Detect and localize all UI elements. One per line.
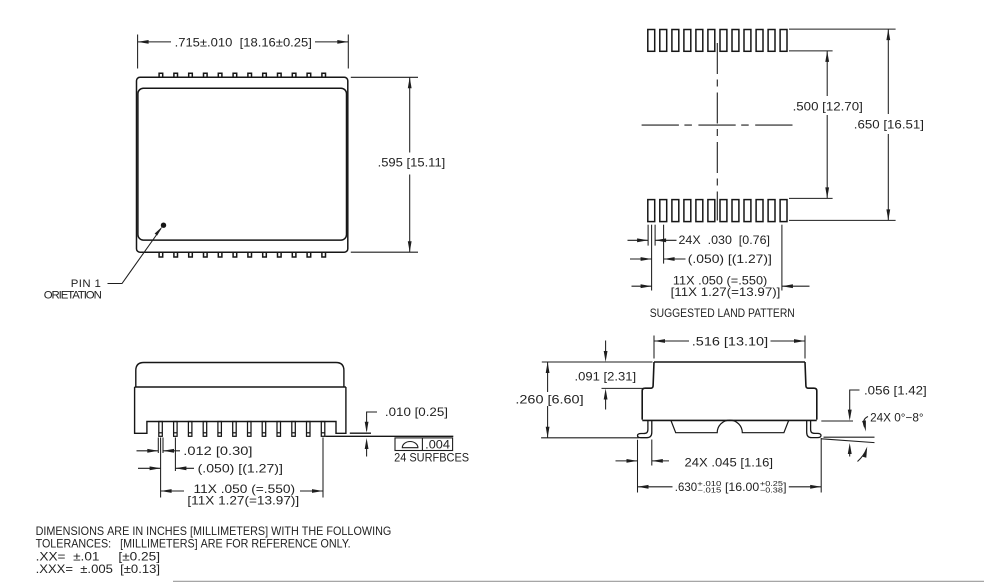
svg-text:SUGGESTED LAND PATTERN: SUGGESTED LAND PATTERN [650,307,795,320]
seating plane line [326,435,454,437]
svg-text:−0.38: −0.38 [760,485,783,494]
extension line pad1 left edge [647,225,649,246]
dimension .260 extension lines [542,361,653,363]
end view: right gull-wing lead [807,421,821,438]
svg-text:24X 0°−8°: 24X 0°−8° [870,411,924,424]
svg-text:TOLERANCES: [MILLIMETERS] AR: TOLERANCES: [MILLIMETERS] ARE FOR REFERE… [36,538,351,551]
land pattern: top row pads (12) [648,30,787,52]
lead angle line 0-8 deg [822,439,875,443]
.056 up arrow [849,450,851,457]
dimension (.050) arrows [630,258,652,260]
dimension .516 line with outward arrowheads [654,340,689,342]
dimension .091 arrows [605,341,607,354]
svg-text:.XX= ±.01 [±0.25]: .XX= ±.01 [±0.25] [36,550,160,563]
pin 1 leader arrowhead [155,226,163,235]
extension line pad1 center [651,225,653,291]
dimension 11X .050 arrows [632,285,652,287]
land pattern: vertical center line [716,43,718,221]
svg-text:.500 [12.70]: .500 [12.70] [793,100,863,113]
svg-text:ORIETATION: ORIETATION [44,290,102,302]
dimension .595 line with outward arrowheads [409,77,411,152]
pin 1 leader line [108,229,162,284]
dimension .715 line with outward arrowheads [138,41,171,43]
feature control frame box [395,438,453,451]
dimension .516 extension lines [653,336,655,359]
svg-text:.091 [2.31]: .091 [2.31] [575,370,637,383]
extension line top inner [789,50,833,52]
svg-text:[16.00: [16.00 [725,481,759,494]
end view: body outline [642,362,817,420]
end view: bottom pedestal with dome [671,420,789,433]
svg-text:.595 [15.11]: .595 [15.11] [378,157,446,170]
top view: top row pins (12) [159,73,325,77]
dimension 11X .050 arrows side view [161,490,184,492]
svg-text:.650 [16.51]: .650 [16.51] [854,118,924,131]
extension line pad12 center [781,225,783,291]
svg-text:[11X 1.27(=13.97)]: [11X 1.27(=13.97)] [187,495,299,508]
dimension .595 extension line top [351,76,418,78]
svg-text:.XXX= ±.005 [±0.13]: .XXX= ±.005 [±0.13] [36,563,160,576]
dimension .715 extension line left [137,35,139,69]
dimension 24X .045 extension lines [651,440,653,466]
side view: body lower outline with end feet [135,387,346,433]
svg-text:−.015: −.015 [697,485,721,494]
dimension .630 extension line right [820,438,822,493]
svg-text:.056 [1.42]: .056 [1.42] [864,384,927,397]
side view: body top cap outline [136,363,344,388]
dimension .012 arrows [137,450,159,452]
svg-text:24X .045 [1.16]: 24X .045 [1.16] [685,456,774,469]
extension line bottom outer [789,219,896,221]
top view: bottom row pins (12) [159,252,325,257]
24X 0-8 leader arc with arrow [864,417,868,428]
svg-text:.630: .630 [675,481,697,494]
lead tip reference line [350,432,371,434]
end view: body bottom edge [642,419,816,421]
side view: leads (12) [159,422,325,437]
dimension .715 extension line right [347,35,349,69]
profile of surface symbol [402,441,418,447]
land pattern: bottom row pads (12) [648,200,787,222]
extension line pin1 center [160,438,162,498]
extension line pin12 center [322,438,324,498]
dimension (.050) arrows side view [138,467,161,469]
side view: body cap divider line [135,386,346,388]
extension line pin2 center [174,438,176,472]
pin 1 index dot [161,223,166,228]
extension line pin1 right [162,438,164,454]
extension line top outer [789,28,896,30]
extension line bottom inner [789,197,833,199]
seating plane extension line [824,436,875,438]
dimension .630 extension line left [637,440,639,493]
svg-text:(.050) [(1.27)]: (.050) [(1.27)] [688,253,772,266]
svg-text:.004: .004 [425,438,450,451]
dimension .650 line with outward arrowheads [887,29,889,114]
dimension .091 extension line [602,387,646,389]
svg-text:24 SURFBCES: 24 SURFBCES [394,452,469,465]
svg-text:.010 [0.25]: .010 [0.25] [385,406,448,419]
dimension .010 up arrow [366,445,368,457]
lead tip top extension line [821,420,853,422]
svg-text:(.050) [(1.27)]: (.050) [(1.27)] [198,462,283,475]
svg-text:.260 [6.60]: .260 [6.60] [515,394,583,407]
top view: package body outer outline [137,77,348,252]
dimension 24X .030 arrows [628,239,649,241]
svg-text:.715±.010 [18.16±0.25]: .715±.010 [18.16±0.25] [175,36,312,49]
land pattern: horizontal center line [642,124,793,126]
extension line pin1 left [157,438,159,454]
svg-text:.516 [13.10]: .516 [13.10] [692,336,768,349]
top view: package body inner (top surface) outline [138,88,347,240]
svg-text:DIMENSIONS ARE IN INCHES [MILL: DIMENSIONS ARE IN INCHES [MILLIMETERS] W… [36,525,392,538]
angle dimension arc with arrowhead [858,449,867,462]
end view: left gull-wing lead [638,421,652,438]
dimension .595 extension line bottom [351,251,418,253]
dimension .010 leader and down arrow [367,412,377,431]
dimension .056 leader with down arrow [850,390,860,418]
dimension .500 line with outward arrowheads [826,51,828,96]
extension line pad1 right edge [654,225,656,246]
dimension .260 line with outward arrowheads [547,362,549,392]
title block border line [173,580,984,582]
svg-text:24X .030 [0.76]: 24X .030 [0.76] [679,234,771,247]
extension line pad2 center [663,225,665,264]
svg-text:PIN 1: PIN 1 [71,278,101,290]
svg-text:]: ] [783,481,786,494]
dimension 24X .045 arrows [616,460,638,462]
svg-text:.012 [0.30]: .012 [0.30] [183,445,252,458]
dimension .630 line with outward arrowheads [638,486,673,488]
svg-text:[11X 1.27(=13.97)]: [11X 1.27(=13.97)] [671,286,781,299]
